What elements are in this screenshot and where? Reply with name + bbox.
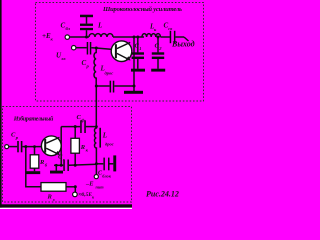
svg-text:э: э [52,197,55,202]
svg-text:≈0,5E: ≈0,5E [79,192,93,198]
svg-text:1: 1 [139,46,141,51]
svg-text:Выход: Выход [171,40,195,49]
svg-text:блок: блок [102,174,111,179]
svg-text:Широкополосный усилитель: Широкополосный усилитель [102,6,182,13]
svg-text:вх: вх [62,56,67,61]
svg-text:св: св [168,26,172,31]
svg-text:дрос: дрос [105,142,114,147]
svg-text:э: э [62,157,65,162]
svg-text:–E: –E [85,181,94,188]
svg-text:Избирательный: Избирательный [13,115,54,122]
svg-text:Рис.24.12: Рис.24.12 [146,190,179,199]
svg-text:L: L [102,132,107,140]
svg-text:бл: бл [66,26,71,31]
svg-text:L: L [97,22,102,30]
svg-text:дрос: дрос [105,71,114,76]
svg-text:пит: пит [96,185,105,190]
svg-text:R: R [47,194,53,201]
